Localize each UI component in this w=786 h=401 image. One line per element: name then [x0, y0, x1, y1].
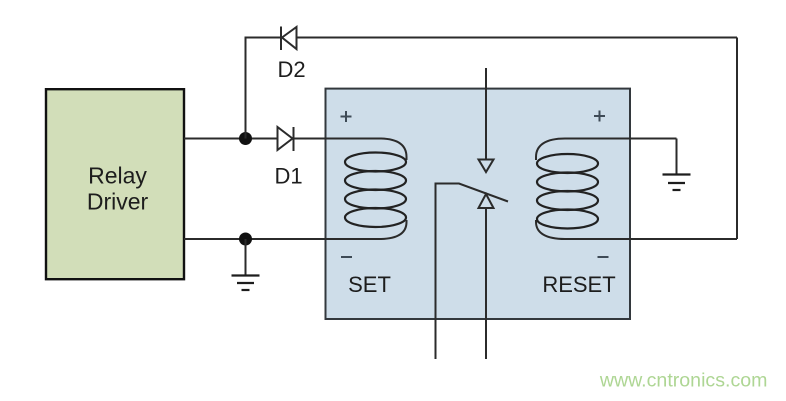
- svg-text:D2: D2: [277, 57, 305, 82]
- diode D2 (cathode bar left, triangle pointing left): [281, 27, 297, 51]
- svg-text:SET: SET: [348, 272, 391, 297]
- wire: RESET coil top lead to ground stub: [536, 139, 677, 161]
- wire: right rail vertical: [736, 38, 738, 240]
- arrowhead up (reset actuation): [479, 194, 494, 208]
- node: junction top: [239, 132, 252, 145]
- switch: common contact arm: [436, 184, 509, 360]
- terminal -: RESET coil: [598, 256, 609, 258]
- ground (bottom left): [232, 276, 260, 291]
- ground (right): [663, 175, 691, 191]
- wire: right rail to RESET coil bottom lead: [536, 220, 737, 239]
- svg-text:Driver: Driver: [87, 189, 149, 215]
- wire: ground stub vertical (right): [676, 139, 678, 174]
- block: Relay Driver U1: [46, 89, 184, 279]
- svg-text:www.cntronics.com: www.cntronics.com: [599, 370, 768, 392]
- svg-text:D1: D1: [274, 164, 302, 189]
- node: junction bottom: [239, 233, 252, 246]
- arrowhead down (set actuation): [479, 160, 494, 173]
- diode D1 (triangle pointing right, cathode bar right): [278, 127, 294, 151]
- wire: set command input (down arrow): [485, 68, 487, 160]
- coil: SET winding (4 turns): [345, 153, 406, 228]
- wire: D2 to right rail: [297, 37, 738, 39]
- svg-text:Relay: Relay: [88, 163, 147, 189]
- wire: junction down to ground: [245, 239, 247, 275]
- wire: SET coil bottom lead to driver (with junction): [184, 220, 407, 239]
- wire: D1 into SET coil top lead: [294, 139, 407, 161]
- svg-text:RESET: RESET: [542, 272, 615, 297]
- wire: driver output to D1 (top): [184, 138, 278, 140]
- terminal +: SET coil: [341, 111, 352, 122]
- wire: junction up to D2 branch: [246, 38, 281, 139]
- terminal +: RESET coil: [594, 111, 605, 122]
- terminal -: SET coil: [341, 256, 352, 258]
- wire: reset command input (up arrow lead): [485, 208, 487, 359]
- coil: RESET winding (4 turns): [537, 154, 598, 229]
- relay module body (latching relay): [326, 89, 631, 319]
